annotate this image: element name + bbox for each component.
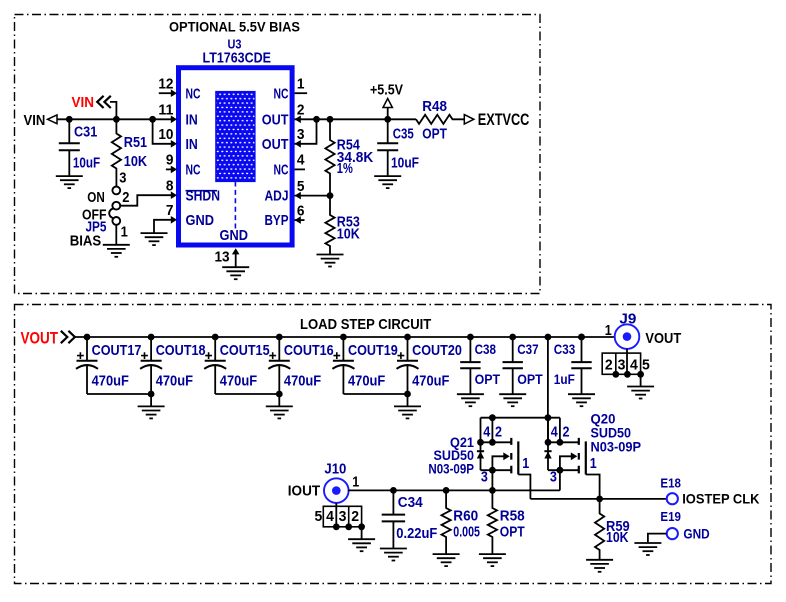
svg-text:COUT17: COUT17 <box>92 342 142 359</box>
svg-text:0.22uF: 0.22uF <box>396 526 437 542</box>
svg-text:N03-09P: N03-09P <box>591 439 642 455</box>
svg-text:3: 3 <box>339 508 347 525</box>
svg-text:10K: 10K <box>337 227 360 243</box>
svg-text:1: 1 <box>590 456 597 472</box>
svg-text:4: 4 <box>483 425 490 441</box>
svg-text:9: 9 <box>166 153 174 169</box>
svg-text:LT1763CDE: LT1763CDE <box>203 49 272 66</box>
svg-text:470uF: 470uF <box>220 372 257 389</box>
svg-text:EXTVCC: EXTVCC <box>478 111 530 129</box>
svg-text:10uF: 10uF <box>391 156 419 172</box>
svg-text:ON: ON <box>87 190 105 206</box>
svg-text:VOUT: VOUT <box>645 330 681 347</box>
svg-text:10K: 10K <box>606 530 629 546</box>
svg-text:GND: GND <box>186 212 215 229</box>
svg-text:OPT: OPT <box>517 372 543 387</box>
svg-text:1: 1 <box>522 456 529 472</box>
svg-text:4: 4 <box>297 153 305 169</box>
svg-text:VOUT: VOUT <box>21 328 59 347</box>
svg-text:C38: C38 <box>475 342 497 357</box>
svg-text:OUT: OUT <box>262 112 289 129</box>
svg-text:OPT: OPT <box>422 126 447 142</box>
svg-text:GND: GND <box>683 526 709 542</box>
svg-text:VIN: VIN <box>72 95 95 111</box>
svg-text:1: 1 <box>352 475 359 491</box>
svg-text:COUT16: COUT16 <box>284 342 334 359</box>
svg-text:OPT: OPT <box>500 525 525 541</box>
svg-text:COUT15: COUT15 <box>220 342 270 359</box>
svg-text:COUT18: COUT18 <box>156 342 206 359</box>
svg-text:3: 3 <box>119 171 126 187</box>
svg-text:2: 2 <box>351 508 359 525</box>
svg-text:13: 13 <box>215 250 230 266</box>
svg-text:1%: 1% <box>337 161 353 177</box>
svg-text:1: 1 <box>297 76 305 92</box>
svg-text:C35: C35 <box>393 126 414 142</box>
svg-text:1: 1 <box>121 225 128 241</box>
svg-text:+5.5V: +5.5V <box>370 83 403 99</box>
svg-text:C33: C33 <box>554 342 576 357</box>
svg-text:8: 8 <box>166 178 174 194</box>
svg-text:OPTIONAL 5.5V BIAS: OPTIONAL 5.5V BIAS <box>169 20 300 35</box>
svg-text:N03-09P: N03-09P <box>428 460 474 476</box>
svg-text:10K: 10K <box>124 154 148 170</box>
svg-text:IOUT: IOUT <box>288 484 320 500</box>
svg-text:10uF: 10uF <box>73 156 100 172</box>
svg-text:R51: R51 <box>124 135 147 151</box>
svg-text:470uF: 470uF <box>156 372 193 389</box>
svg-text:R58: R58 <box>500 508 525 524</box>
svg-text:NC: NC <box>186 162 201 179</box>
svg-text:470uF: 470uF <box>92 372 129 389</box>
svg-text:IOSTEP CLK: IOSTEP CLK <box>682 491 759 507</box>
svg-text:R60: R60 <box>453 508 478 524</box>
svg-text:C31: C31 <box>74 125 97 141</box>
svg-text:NC: NC <box>274 162 289 179</box>
svg-text:E18: E18 <box>660 477 681 491</box>
svg-text:470uF: 470uF <box>348 372 385 389</box>
svg-text:J10: J10 <box>324 461 346 478</box>
svg-text:IN: IN <box>186 136 198 153</box>
svg-text:COUT20: COUT20 <box>412 342 462 359</box>
svg-text:1: 1 <box>605 323 612 339</box>
svg-text:4: 4 <box>630 356 638 373</box>
svg-text:C34: C34 <box>398 495 423 511</box>
svg-text:2: 2 <box>563 425 570 441</box>
svg-text:OUT: OUT <box>262 136 289 153</box>
svg-text:1uF: 1uF <box>554 372 575 387</box>
svg-text:0.005: 0.005 <box>453 525 480 541</box>
svg-text:2: 2 <box>605 356 613 373</box>
svg-text:3: 3 <box>550 470 557 486</box>
svg-text:C37: C37 <box>517 342 538 357</box>
svg-text:470uF: 470uF <box>284 372 321 389</box>
svg-text:OPT: OPT <box>475 372 501 387</box>
svg-text:3: 3 <box>618 356 626 373</box>
svg-text:BIAS: BIAS <box>70 234 102 250</box>
svg-text:LOAD STEP CIRCUIT: LOAD STEP CIRCUIT <box>300 316 431 333</box>
svg-text:NC: NC <box>186 85 201 102</box>
svg-text:E19: E19 <box>660 510 681 524</box>
svg-text:5: 5 <box>642 356 650 373</box>
svg-text:ADJ: ADJ <box>265 187 289 204</box>
svg-text:3: 3 <box>481 470 488 486</box>
svg-text:5: 5 <box>315 508 323 525</box>
svg-text:R48: R48 <box>422 99 447 115</box>
svg-text:2: 2 <box>122 190 129 206</box>
svg-text:7: 7 <box>166 203 174 219</box>
svg-text:BYP: BYP <box>265 212 289 229</box>
svg-text:2: 2 <box>495 425 502 441</box>
svg-text:470uF: 470uF <box>412 372 449 389</box>
svg-text:GND: GND <box>220 227 249 244</box>
svg-text:NC: NC <box>274 85 289 102</box>
svg-text:4: 4 <box>326 508 334 525</box>
svg-text:4: 4 <box>551 425 558 441</box>
svg-text:COUT19: COUT19 <box>348 342 398 359</box>
svg-text:VIN: VIN <box>24 113 46 129</box>
svg-text:IN: IN <box>186 112 198 129</box>
